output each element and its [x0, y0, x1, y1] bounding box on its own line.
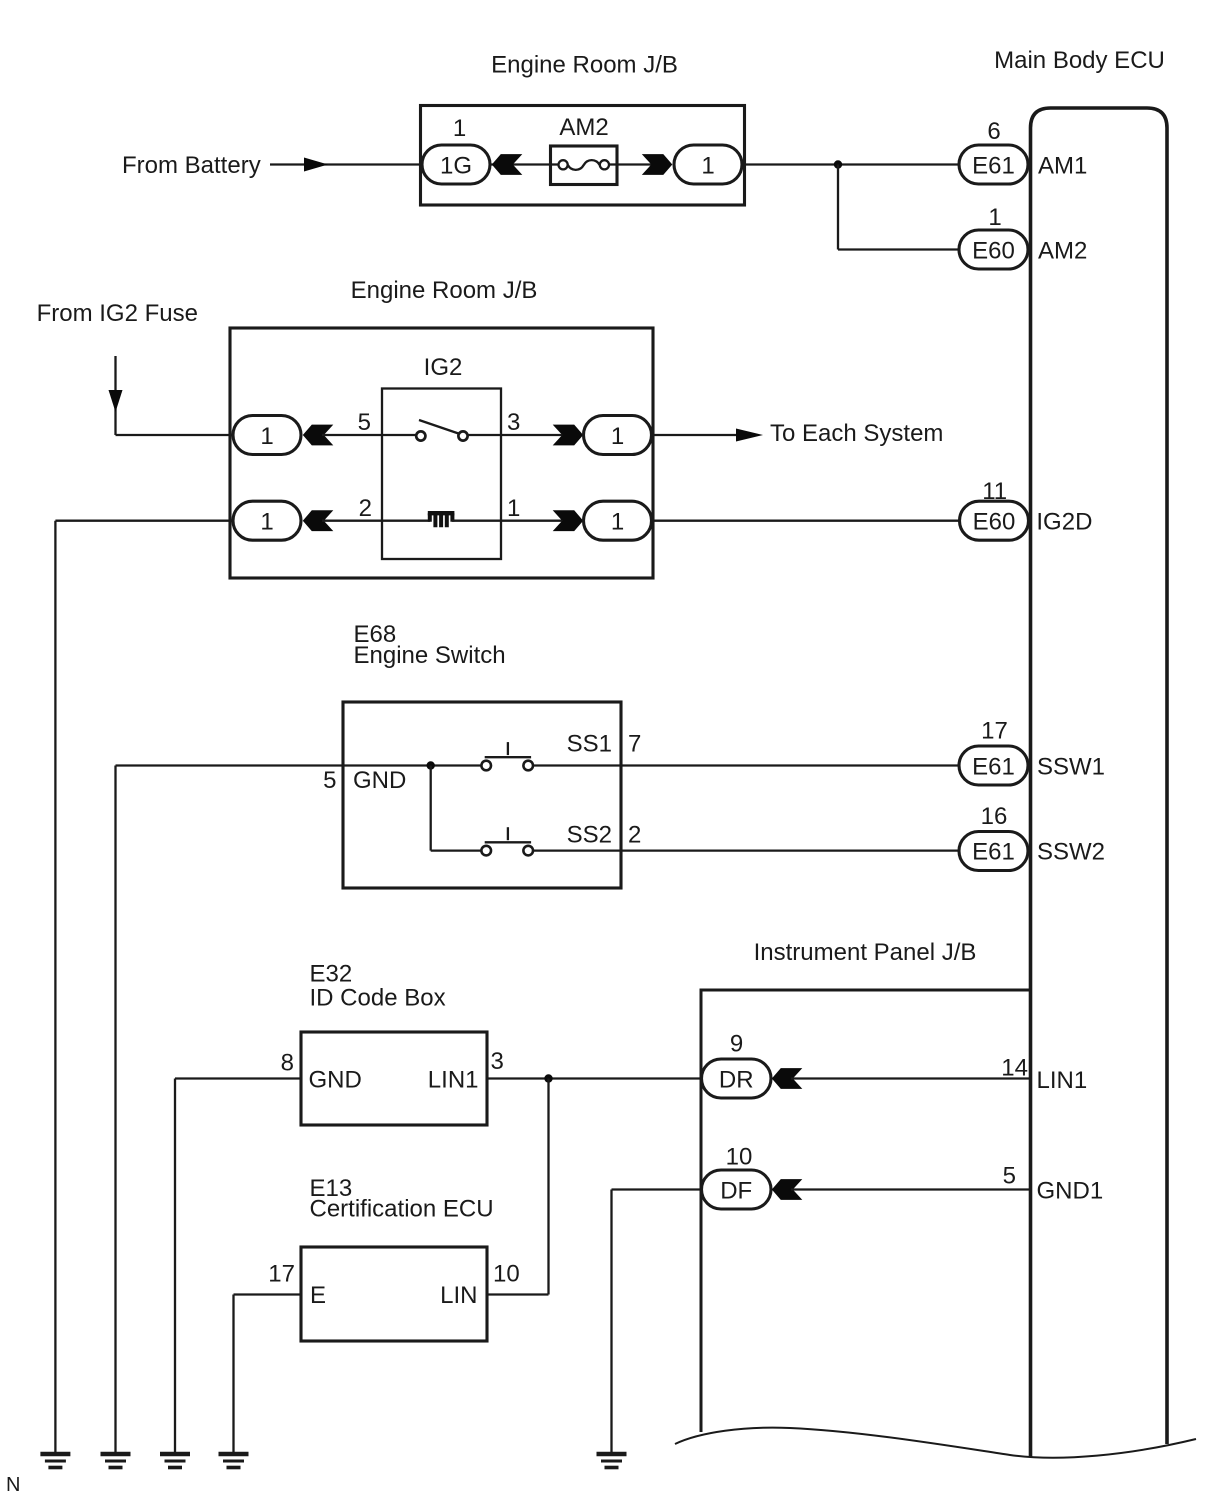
svg-text:Engine Room J/B: Engine Room J/B — [351, 277, 538, 304]
svg-text:AM1: AM1 — [1038, 153, 1087, 180]
svg-text:17: 17 — [981, 718, 1008, 745]
svg-text:9: 9 — [730, 1031, 743, 1058]
svg-text:SSW1: SSW1 — [1037, 754, 1105, 781]
svg-text:SSW2: SSW2 — [1037, 839, 1105, 866]
svg-text:LIN1: LIN1 — [428, 1067, 479, 1094]
svg-text:IG2: IG2 — [424, 354, 463, 381]
svg-text:E60: E60 — [972, 238, 1015, 265]
svg-text:1: 1 — [611, 423, 624, 450]
svg-text:To Each System: To Each System — [770, 420, 943, 447]
svg-text:GND: GND — [309, 1067, 362, 1094]
svg-text:SS1: SS1 — [567, 731, 612, 758]
svg-text:ID Code Box: ID Code Box — [310, 985, 446, 1012]
svg-text:6: 6 — [987, 118, 1000, 145]
svg-text:E61: E61 — [972, 153, 1015, 180]
svg-text:1: 1 — [701, 153, 714, 180]
svg-text:E61: E61 — [972, 839, 1015, 866]
svg-text:1: 1 — [260, 423, 273, 450]
svg-text:5: 5 — [323, 767, 336, 794]
svg-text:E32: E32 — [310, 961, 353, 988]
svg-text:3: 3 — [491, 1048, 504, 1075]
svg-text:7: 7 — [628, 731, 641, 758]
svg-text:14: 14 — [1001, 1055, 1028, 1082]
svg-text:LIN: LIN — [440, 1282, 477, 1309]
svg-text:1: 1 — [260, 509, 273, 536]
svg-text:DF: DF — [720, 1178, 752, 1205]
svg-text:AM2: AM2 — [559, 114, 608, 141]
svg-text:11: 11 — [982, 478, 1007, 505]
svg-text:SS2: SS2 — [567, 822, 612, 849]
svg-text:From Battery: From Battery — [122, 152, 261, 179]
svg-text:2: 2 — [628, 822, 641, 849]
svg-text:1G: 1G — [440, 153, 472, 180]
svg-text:From IG2 Fuse: From IG2 Fuse — [37, 300, 198, 327]
svg-text:DR: DR — [719, 1067, 754, 1094]
svg-text:5: 5 — [1003, 1163, 1016, 1190]
svg-text:1: 1 — [988, 204, 1001, 231]
svg-text:5: 5 — [358, 409, 371, 436]
svg-text:16: 16 — [981, 803, 1008, 830]
svg-text:Main Body ECU: Main Body ECU — [994, 47, 1165, 74]
svg-text:1: 1 — [453, 115, 466, 142]
svg-text:Engine Switch: Engine Switch — [354, 642, 506, 669]
svg-text:2: 2 — [359, 495, 372, 522]
svg-text:AM2: AM2 — [1038, 238, 1087, 265]
svg-text:10: 10 — [726, 1144, 753, 1171]
svg-text:1: 1 — [507, 495, 520, 522]
svg-text:8: 8 — [281, 1050, 294, 1077]
svg-text:GND1: GND1 — [1037, 1178, 1104, 1205]
svg-text:17: 17 — [268, 1261, 295, 1288]
svg-text:E60: E60 — [973, 509, 1016, 536]
svg-text:Certification ECU: Certification ECU — [310, 1196, 494, 1223]
svg-text:E61: E61 — [972, 754, 1015, 781]
svg-text:N: N — [6, 1474, 20, 1496]
svg-text:1: 1 — [611, 509, 624, 536]
svg-text:IG2D: IG2D — [1036, 509, 1092, 536]
svg-text:E: E — [310, 1282, 326, 1309]
svg-text:3: 3 — [507, 409, 520, 436]
svg-text:LIN1: LIN1 — [1037, 1067, 1088, 1094]
svg-text:GND: GND — [353, 767, 406, 794]
svg-text:Engine Room J/B: Engine Room J/B — [491, 52, 678, 79]
svg-text:Instrument Panel J/B: Instrument Panel J/B — [754, 939, 977, 966]
svg-text:10: 10 — [493, 1261, 520, 1288]
